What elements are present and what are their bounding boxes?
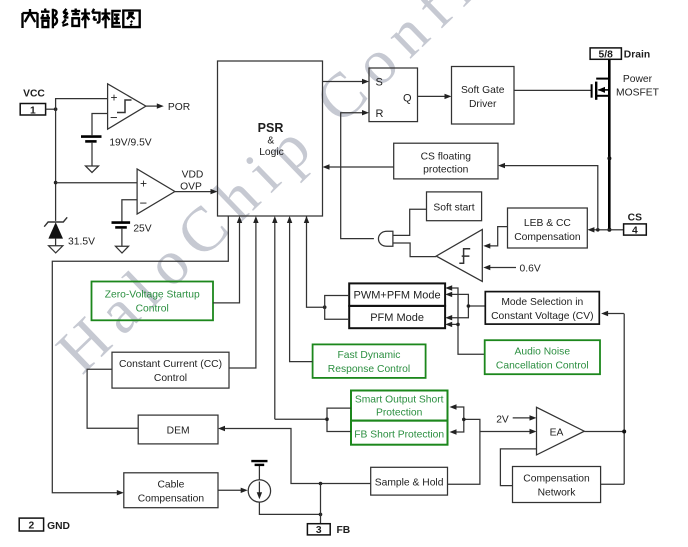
svg-text:R: R [376,108,384,120]
wire PSR mode bracket [307,216,325,307]
svg-text:+: + [140,176,147,190]
wire CS rail to pin 4 [609,229,623,231]
wire CS rail to LEB block [594,229,609,231]
wire 0.6V reference [490,267,516,269]
char 图 [123,11,139,28]
block U23 Compensation Network [513,467,601,503]
wire protections right bracket [456,407,480,432]
svg-text:OVP: OVP [180,181,202,192]
current source I1 inner arrowhead [257,492,262,499]
wire LEB output to comparator U8 [490,227,508,246]
svg-text:Control: Control [136,304,169,315]
wire EA output up to mode selection [608,313,624,315]
transistor Q1 channel bar [595,82,597,100]
svg-text:0.6V: 0.6V [520,263,541,274]
arrow zero-voltage into PSR bottom [237,216,242,223]
svg-text:Compensation: Compensation [138,494,205,505]
wire mode-selection feed to PWM and PFM right edges [452,294,486,317]
wire AND gate output up to R input [341,113,374,239]
svg-text:19V/9.5V: 19V/9.5V [109,137,151,148]
pin 3 FB box [307,524,330,535]
svg-text:Cancellation Control: Cancellation Control [496,361,589,372]
char 构 [81,9,99,29]
node FB upper junction [319,482,323,486]
wire tap to comparator U2 + input [56,182,138,184]
svg-text:PFM Mode: PFM Mode [370,312,424,324]
wire PSR to S input [323,81,363,83]
node CS tap for floating protection [596,228,600,232]
arrow into comparator U8 upper input [483,243,490,248]
transistor Q1 source stub [596,95,609,97]
svg-text:Logic: Logic [259,147,284,158]
svg-text:3: 3 [316,525,322,536]
char 框 [101,9,120,29]
svg-text:FB: FB [337,525,351,536]
svg-text:S: S [376,77,383,89]
svg-text:Sample & Hold: Sample & Hold [375,477,444,488]
arrow into mode selection right edge [601,311,608,316]
svg-text:PSR: PSR [258,121,284,135]
svg-text:Smart Output Short: Smart Output Short [355,395,444,406]
op-amp U2 VDD OVP comparator [137,169,175,214]
pin 5/8 Drain box [590,48,621,59]
wire VCC node down the left rail to zener [55,109,57,221]
wire U2 minus input [122,200,137,222]
wire 2V reference to EA [513,417,530,419]
wire Q output to soft gate driver [418,95,446,97]
svg-text:EA: EA [550,428,564,439]
node mode bracket [323,305,327,309]
wire CC control to PSR [229,223,256,369]
svg-text:Power: Power [623,74,653,85]
node VCC junction [54,107,58,111]
block U22 Sample & Hold [371,467,448,495]
svg-text:Soft Gate: Soft Gate [461,85,505,96]
arrow into driver [445,94,452,99]
svg-text:Network: Network [538,488,577,499]
svg-text:GND: GND [47,521,70,532]
svg-text:5/8: 5/8 [599,50,614,61]
wire fast dynamic control to PSR [290,223,313,362]
arrow into DEM right edge [218,426,225,431]
wire soft start to AND gate input 1 [393,209,427,235]
arrow into S [362,79,369,84]
op-amp U1 POR comparator [108,84,146,129]
op-amp U8 current comparator (points left) [436,230,482,282]
arrow into comparator U8 lower input [483,265,490,270]
wire EA output to feedback rail [584,314,624,485]
svg-text:protection: protection [423,165,468,176]
svg-text:2: 2 [29,521,35,532]
wire current source down to FB net [259,502,320,514]
node FB lower junction [319,513,323,517]
block U18 Audio Noise Cancellation Control (green) [485,340,600,374]
arrow into R [362,110,369,115]
wire CC control left to DEM [87,369,138,428]
block U20 FB Short Protection (green) [351,421,448,445]
svg-text:Fast Dynamic: Fast Dynamic [338,350,401,361]
arrow into smart output short right edge [450,404,457,409]
block U19 Smart Output Short Protection (green) [351,391,448,421]
arrow 2V into EA [530,415,537,420]
wire FB pin riser [320,484,322,524]
char 内 [23,9,38,28]
arrow into PWM+PFM right edge (upper) [445,285,452,290]
wire zero-voltage control to PSR [213,223,240,303]
hysteresis symbol U1 [117,100,132,113]
svg-text:MOSFET: MOSFET [616,88,660,99]
block U4 SR flip-flop [369,68,418,122]
transistor Q1 body arrow [598,87,605,93]
AND gate U10 (points left) [378,231,392,246]
ground G3 [49,246,63,253]
wire PSR output to cable compensation (left rail) [52,216,228,493]
svg-text:Control: Control [154,373,187,384]
wire audio-noise feed to PWM and PFM right edges [452,288,485,354]
wire U1 minus input [92,114,108,136]
svg-text:Constant Current (CC): Constant Current (CC) [119,359,222,370]
block U24 Cable Compensation [124,473,218,508]
arrow into LEB right edge [587,227,594,232]
ground G2 [116,246,129,253]
svg-text:Driver: Driver [469,99,497,110]
transistor Q1 drain stub [596,78,609,80]
svg-text:1: 1 [30,106,36,117]
svg-text:31.5V: 31.5V [68,237,95,248]
current source I1 inner arrow line [258,482,260,495]
svg-text:+: + [110,91,117,105]
transistor Q1 body stub [598,89,609,91]
char 部 [41,9,58,29]
block U17 Fast Dynamic Response Control (green) [313,344,426,378]
block U14 Zero-Voltage Startup Control (green) [92,282,214,321]
arrow into PSR right edge [323,164,330,169]
arrow protections into PSR bottom [272,216,277,223]
wire CS floating protection to PSR [329,166,394,168]
svg-text:Constant Voltage (CV): Constant Voltage (CV) [491,311,593,322]
block U11 PWM+PFM Mode [349,283,445,306]
wire battery B2 to ground [121,229,123,247]
arrow CC control into PSR bottom [253,216,258,223]
arrow into current source [241,488,248,493]
svg-text:DEM: DEM [167,425,190,436]
wire bracket to PFM left edge [325,307,350,319]
block U5 Soft Gate Driver [452,67,515,125]
block U16 DEM [138,415,218,444]
svg-text:FB Short Protection: FB Short Protection [354,429,444,440]
zener D1 31.5V cathode bar [44,217,67,226]
node EA output [622,430,626,434]
svg-text:Mode Selection in: Mode Selection in [501,297,583,308]
transistor Q1 power MOSFET gate bar [591,84,593,98]
svg-text:Zero-Voltage Startup: Zero-Voltage Startup [105,290,200,301]
arrow into PFM right edge (lower) [445,322,452,327]
arrow into EA second input [530,429,537,434]
block U13 Mode Selection in Constant Voltage (CV) [485,292,599,325]
node VDD OVP tap [54,181,58,185]
svg-text:Response Control: Response Control [328,364,410,375]
svg-text:Audio Noise: Audio Noise [515,347,571,358]
node protections right bracket [462,418,466,422]
zener D1 body [48,222,63,238]
node audio bracket [456,323,460,327]
svg-text:POR: POR [168,102,190,113]
op-amp U21 EA error amplifier [537,407,585,455]
wire zener to ground [55,239,57,246]
node mode selection output [467,304,471,308]
block U6 CS floating protection [394,143,498,179]
node on drain rail [607,156,611,160]
block U7 LEB & CC Compensation [508,208,588,248]
arrow into PFM right edge (second) [445,315,452,320]
battery B1 19V/9.5V [81,135,102,138]
node protections left bracket [325,417,329,421]
wire battery B1 to ground [91,143,93,166]
pin 1 VCC box [20,104,45,116]
svg-text:&: & [267,136,274,147]
svg-text:LEB & CC: LEB & CC [524,218,571,229]
svg-text:CS floating: CS floating [421,152,472,163]
pin 4 CS box [624,224,647,235]
svg-text:Soft start: Soft start [433,202,474,213]
svg-text:Protection: Protection [376,408,423,419]
wire DEM feedback from FB net [225,429,371,484]
battery B2 25V [112,221,131,224]
arrow into PSR left edge [211,189,218,194]
wire driver to MOSFET gate [514,89,591,91]
wire drain rail (thick) [608,59,611,230]
hysteresis symbol U8 [459,249,470,263]
svg-text:CS: CS [628,212,642,223]
arrow into PWM right edge (second) [445,292,452,297]
pin 2 GND box [19,518,43,531]
block U15 Constant Current (CC) Control [112,352,229,388]
svg-text:VDD: VDD [182,170,204,181]
wire bracket to PWM+PFM left edge [325,296,350,308]
svg-text:PWM+PFM Mode: PWM+PFM Mode [354,290,441,302]
wire cable compensation to current source [218,489,241,491]
wire protections left bracket to PSR [275,223,351,432]
arrow fast dynamic into PSR bottom [287,216,292,223]
wire U2 output VDD OVP to PSR [175,191,211,193]
svg-text:−: − [140,196,148,211]
wire comparator U8 output to AND gate input 2 [393,243,437,257]
char 结 [62,9,80,26]
wire CS tap up and into CS floating protection [505,166,598,230]
arrow into cable compensation left edge [117,490,124,495]
supply rail symbol above current source [258,465,260,480]
arrow POR [157,103,164,108]
svg-text:2V: 2V [496,414,509,425]
svg-text:25V: 25V [133,224,151,235]
node drain rail at CS [607,228,611,232]
svg-text:Cable: Cable [157,480,184,491]
svg-text:Drain: Drain [624,50,650,61]
title 内部结构框图 (hand-drawn strokes) [23,9,140,29]
arrow into CS floating protection right edge [498,163,505,168]
svg-text:Compensation: Compensation [523,474,590,485]
wire VCC node up to comparator U1 + input [56,99,108,110]
block U9 Soft start [427,192,482,221]
svg-text:Q: Q [403,93,412,105]
svg-text:−: − [110,110,118,125]
svg-text:Compensation: Compensation [514,232,581,243]
wire VCC pin to node [46,108,56,110]
block U3 PSR & Logic [218,61,323,216]
wire U1 output POR [146,105,158,107]
svg-text:4: 4 [632,226,638,237]
ground G1 [86,166,99,173]
block U12 PFM Mode [349,306,445,328]
svg-text:VCC: VCC [23,89,45,100]
current source I1 circle [248,480,270,502]
wire compensation network to EA lower input [500,449,536,486]
arrow into FB short right edge [450,429,457,434]
arrow from mode bracket into PSR bottom [304,216,309,223]
wire sample&hold / protections to EA input [448,432,531,485]
